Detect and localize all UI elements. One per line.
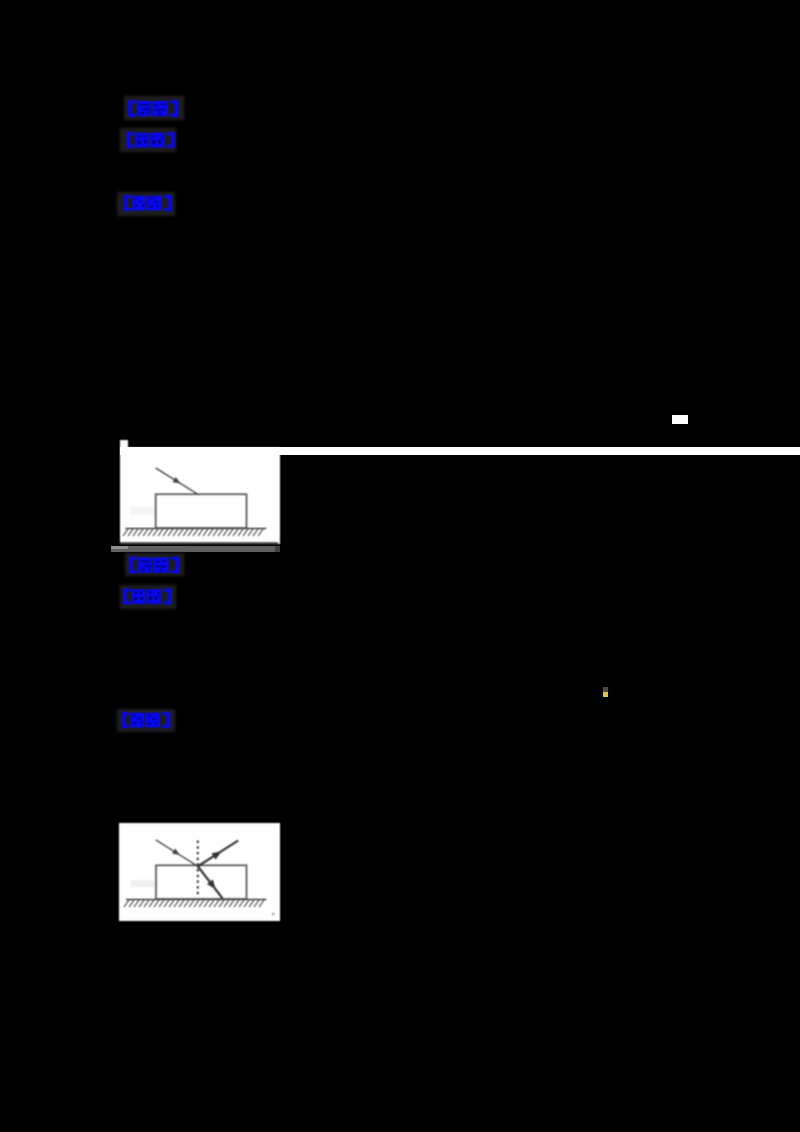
hatching xyxy=(123,529,263,536)
label B3 jieda xyxy=(120,712,173,728)
refracted ray xyxy=(198,866,223,898)
white stripe row xyxy=(120,447,800,455)
reflected ray xyxy=(198,840,238,866)
incident ray xyxy=(156,839,198,866)
bottom border line xyxy=(120,542,278,544)
faint watermark xyxy=(131,880,154,887)
ground line xyxy=(126,898,266,900)
hatching xyxy=(124,900,264,907)
label A3 jieda xyxy=(122,195,174,211)
normal dotted xyxy=(197,840,199,895)
ground line xyxy=(125,528,266,530)
incident ray xyxy=(156,468,199,495)
halo A3 xyxy=(117,192,175,216)
tiny dot xyxy=(272,913,275,915)
halo A1 xyxy=(124,96,184,120)
halo B3 xyxy=(117,709,175,732)
white equation fragment xyxy=(672,415,688,424)
halo B1 xyxy=(125,553,184,576)
faint watermark xyxy=(130,507,158,515)
figure 2: box with incident, reflected, refracted rays xyxy=(119,823,280,921)
figure 1 shadow xyxy=(111,546,280,553)
halo A2 xyxy=(120,128,176,152)
halo B2 xyxy=(120,585,176,609)
glass block xyxy=(156,865,247,899)
label A2 fenxi xyxy=(126,132,176,148)
yellow icon xyxy=(603,687,608,692)
label B1 kaodian xyxy=(129,556,180,574)
glass block xyxy=(156,494,247,528)
figure 1: box with incident ray xyxy=(120,440,280,544)
label B2 fenxi xyxy=(123,588,172,605)
label A1 kaodian xyxy=(128,100,179,117)
